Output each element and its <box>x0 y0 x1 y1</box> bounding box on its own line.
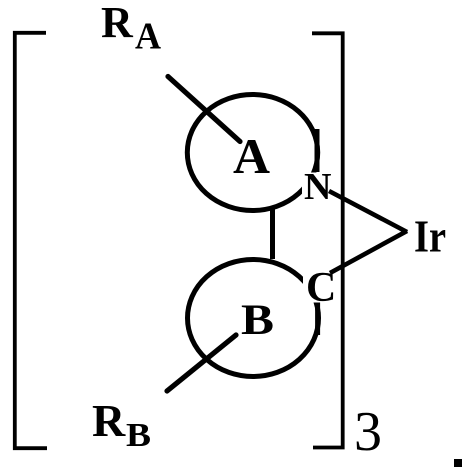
period <box>454 459 462 467</box>
white mask under C <box>303 269 336 303</box>
ring A circle <box>187 95 317 211</box>
svg-text:R: R <box>92 395 126 446</box>
ring B circle <box>188 260 319 377</box>
inter-ring bond <box>270 209 275 259</box>
bond C to Ir <box>330 231 407 273</box>
svg-text:R: R <box>101 0 134 47</box>
bond C to ring B <box>315 302 320 335</box>
svg-text:A: A <box>233 128 270 184</box>
white mask under N <box>302 173 332 202</box>
svg-text:Ir: Ir <box>414 211 446 262</box>
right bracket <box>312 33 343 447</box>
bond N to Ir <box>329 191 407 232</box>
bond RB to ring B <box>167 335 236 391</box>
svg-text:A: A <box>135 16 162 58</box>
bond ring A to N <box>315 129 320 172</box>
bond RA to ring A <box>168 77 240 142</box>
svg-text:3: 3 <box>354 401 382 463</box>
svg-text:B: B <box>126 417 151 454</box>
left bracket <box>15 33 47 448</box>
svg-text:B: B <box>241 297 274 344</box>
svg-text:N: N <box>304 166 331 208</box>
